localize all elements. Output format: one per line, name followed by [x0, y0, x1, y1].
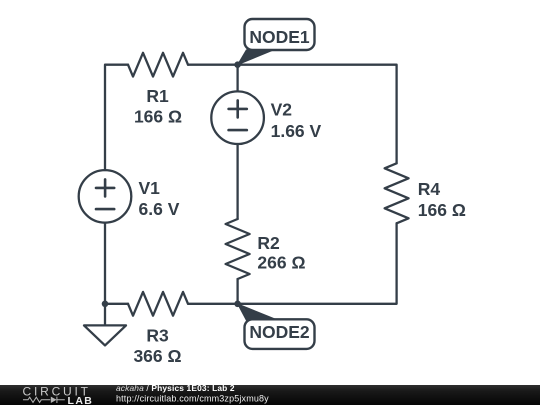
svg-text:266 Ω: 266 Ω: [257, 253, 305, 273]
wire node2 to R3: [188, 303, 238, 305]
voltage source V2: [211, 91, 264, 144]
node NODE1 callout pointer: [238, 50, 274, 65]
junction dot ground: [102, 301, 109, 308]
wire top-left rail: [105, 65, 128, 170]
svg-text:V2: V2: [271, 100, 293, 120]
junction dot node1: [234, 61, 241, 68]
svg-text:6.6 V: 6.6 V: [139, 199, 180, 219]
svg-text:NODE1: NODE1: [249, 27, 310, 47]
svg-text:http://circuitlab.com/cmm3zp5j: http://circuitlab.com/cmm3zp5jxmu8y: [116, 393, 269, 403]
wire R3 to bottom-left junction: [105, 303, 128, 305]
svg-text:R1: R1: [146, 86, 169, 106]
wire node1 to top-right corner and down to R4: [238, 65, 397, 164]
wire V2 bottom to R2: [236, 144, 238, 219]
node NODE2 callout box: [245, 319, 315, 349]
wire R2 to node2: [236, 279, 238, 304]
wire V1 bottom to bottom-left junction: [104, 223, 106, 304]
voltage source V1: [79, 170, 132, 223]
svg-text:166 Ω: 166 Ω: [134, 107, 182, 127]
wire R1 to node1: [188, 64, 238, 66]
wire node1 to V2 top: [236, 65, 238, 92]
resistor R3: [128, 292, 188, 316]
svg-text:R2: R2: [257, 233, 280, 253]
junction dot node2: [234, 301, 241, 308]
svg-text:R3: R3: [146, 326, 169, 346]
ground: [84, 304, 126, 346]
svg-text:R4: R4: [418, 179, 441, 199]
node NODE1 callout box: [245, 19, 315, 50]
svg-text:1.66 V: 1.66 V: [271, 121, 322, 141]
svg-text:NODE2: NODE2: [249, 322, 310, 342]
node NODE2 callout pointer: [238, 304, 275, 321]
svg-text:LAB: LAB: [68, 395, 94, 405]
svg-text:366 Ω: 366 Ω: [133, 346, 181, 366]
svg-text:ackaha / Physics 1E03: Lab 2: ackaha / Physics 1E03: Lab 2: [116, 383, 235, 393]
svg-text:V1: V1: [139, 178, 161, 198]
footer logo squiggle: [23, 397, 65, 403]
resistor R4: [385, 163, 409, 223]
resistor R1: [128, 53, 188, 77]
svg-text:166 Ω: 166 Ω: [418, 200, 466, 220]
resistor R2: [226, 219, 250, 279]
wire R4 to bottom-right corner to node2: [238, 223, 397, 303]
